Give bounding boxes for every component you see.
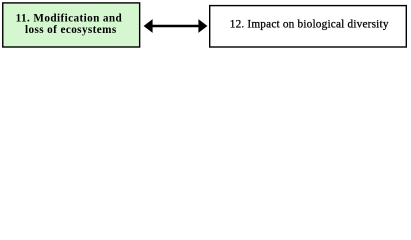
box 12: Impact on biological diversity [210, 6, 407, 47]
box 11: Modification and loss of ecosystems [3, 3, 140, 47]
right arrowhead (points to box 12) [198, 19, 207, 33]
connector shaft (double-headed arrow between box 11 and box 12) [151, 25, 199, 28]
left arrowhead (points to box 11) [144, 19, 153, 33]
svg-text:loss of ecosystems: loss of ecosystems [25, 24, 117, 36]
svg-text:12. Impact on biological diver: 12. Impact on biological diversity [230, 19, 389, 31]
